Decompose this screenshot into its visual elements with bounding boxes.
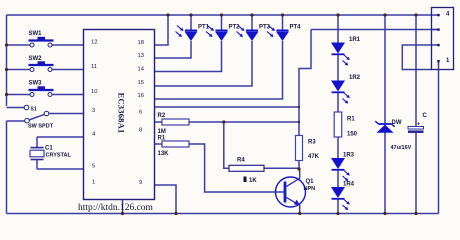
svg-text:1M: 1M <box>158 129 166 135</box>
svg-text:1R2: 1R2 <box>349 75 361 81</box>
svg-text:PT1: PT1 <box>198 25 210 31</box>
svg-text:Q1: Q1 <box>306 179 315 185</box>
svg-text:SW3: SW3 <box>29 81 43 87</box>
svg-text:NPN: NPN <box>304 186 316 192</box>
svg-text:47K: 47K <box>308 154 320 160</box>
svg-text:R3: R3 <box>308 140 316 146</box>
svg-text:14: 14 <box>138 67 145 73</box>
svg-text:3: 3 <box>92 108 95 114</box>
svg-text:R2: R2 <box>158 113 166 119</box>
svg-text:13K: 13K <box>158 151 170 157</box>
svg-text:150: 150 <box>347 132 358 138</box>
svg-text:C: C <box>423 113 428 119</box>
svg-text:5: 5 <box>92 164 95 170</box>
svg-text:1: 1 <box>92 180 95 186</box>
svg-text:10: 10 <box>91 89 97 95</box>
svg-text:47u/16V: 47u/16V <box>391 145 412 151</box>
svg-text:SW SPDT: SW SPDT <box>28 124 54 130</box>
svg-text:6: 6 <box>139 110 142 116</box>
svg-text:1R4: 1R4 <box>343 182 355 188</box>
svg-text:R1: R1 <box>347 117 355 123</box>
svg-text:PT2: PT2 <box>229 25 241 31</box>
svg-text:SW2: SW2 <box>29 56 43 62</box>
svg-text:http://ktdn.126.com: http://ktdn.126.com <box>78 203 154 213</box>
svg-text:EC3368A1: EC3368A1 <box>117 93 127 134</box>
svg-text:S1: S1 <box>31 107 37 113</box>
svg-text:12: 12 <box>91 40 97 46</box>
svg-text:+: + <box>417 122 420 128</box>
svg-text:PT4: PT4 <box>290 25 302 31</box>
svg-text:CRYSTAL: CRYSTAL <box>46 153 72 159</box>
svg-text:1R3: 1R3 <box>343 153 355 159</box>
svg-text:C1: C1 <box>45 146 53 152</box>
svg-text:1R1: 1R1 <box>349 37 361 43</box>
svg-text:R1: R1 <box>158 136 166 142</box>
svg-text:8: 8 <box>139 128 142 134</box>
svg-text:11: 11 <box>91 64 97 70</box>
svg-text:18: 18 <box>138 40 144 46</box>
svg-text:SW1: SW1 <box>29 31 43 37</box>
svg-text:R4: R4 <box>237 158 245 164</box>
svg-text:PT3: PT3 <box>259 25 271 31</box>
svg-text:1K: 1K <box>249 178 257 184</box>
svg-text:9: 9 <box>139 180 142 186</box>
svg-text:15: 15 <box>138 80 144 86</box>
svg-text:13: 13 <box>138 53 144 59</box>
svg-text:DW: DW <box>392 120 402 126</box>
svg-text:16: 16 <box>138 93 144 99</box>
